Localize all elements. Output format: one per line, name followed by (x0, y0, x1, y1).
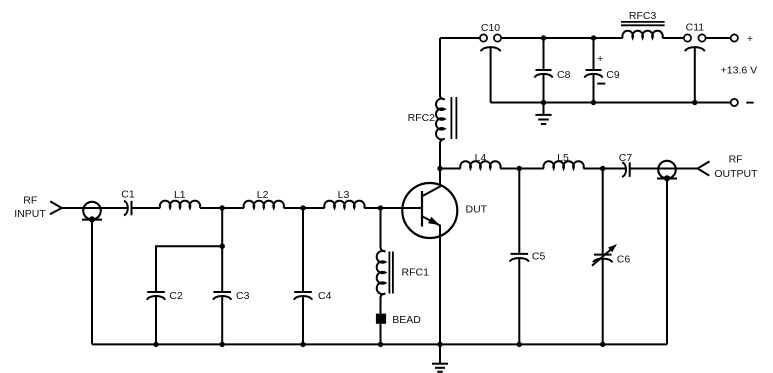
svg-text:+13.6 V: +13.6 V (721, 65, 758, 77)
svg-text:RF: RF (23, 195, 37, 207)
svg-text:L2: L2 (257, 189, 269, 201)
svg-text:OUTPUT: OUTPUT (714, 168, 758, 180)
svg-text:L5: L5 (557, 152, 569, 164)
svg-text:C6: C6 (617, 254, 631, 266)
svg-text:L4: L4 (475, 152, 487, 164)
svg-text:RFC1: RFC1 (402, 267, 430, 279)
svg-text:L1: L1 (174, 189, 186, 201)
svg-text:C11: C11 (686, 22, 705, 34)
svg-text:C3: C3 (236, 290, 250, 302)
svg-text:INPUT: INPUT (14, 208, 46, 220)
svg-text:RFC2: RFC2 (408, 112, 436, 124)
svg-text:L3: L3 (338, 189, 350, 201)
svg-text:BEAD: BEAD (392, 314, 421, 326)
svg-text:C7: C7 (619, 152, 633, 164)
svg-text:RF: RF (729, 153, 743, 165)
svg-text:C1: C1 (121, 189, 135, 201)
svg-text:C10: C10 (481, 22, 500, 34)
svg-text:DUT: DUT (466, 204, 488, 216)
svg-text:C5: C5 (532, 251, 546, 263)
svg-text:C4: C4 (318, 290, 332, 302)
svg-text:RFC3: RFC3 (629, 10, 657, 22)
svg-text:+: + (747, 33, 753, 45)
svg-text:C8: C8 (557, 69, 571, 81)
svg-text:+: + (597, 53, 603, 65)
svg-text:C9: C9 (606, 69, 620, 81)
svg-text:C2: C2 (169, 290, 183, 302)
